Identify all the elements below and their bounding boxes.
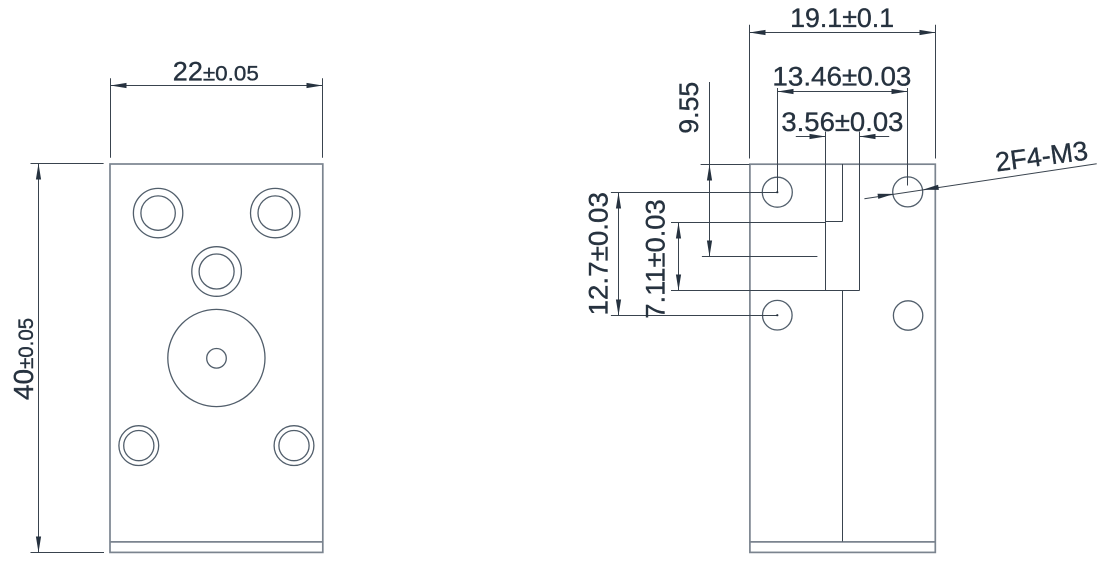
dim 13.46 line <box>778 91 908 93</box>
side view body outline <box>750 164 935 552</box>
hole top-right inner <box>258 196 292 230</box>
dim 9.55 top extension <box>701 164 750 166</box>
arrow 12.7 top <box>616 193 621 209</box>
hole bottom-left outer <box>119 426 159 466</box>
channel middle line <box>842 164 844 222</box>
dim 3.56 right extension <box>859 132 861 165</box>
dim 3.56 left extension <box>825 132 827 165</box>
center hole <box>207 349 227 369</box>
dim 22 right extension <box>322 78 324 157</box>
front view bottom step line <box>110 541 323 543</box>
hole center dot bottom-left <box>776 314 778 316</box>
hole bottom-right outer <box>274 426 314 466</box>
svg-text:3.56±0.03: 3.56±0.03 <box>781 107 903 137</box>
dim 13.46 right extension to hole center <box>907 88 909 186</box>
dim 19.1 left extension <box>749 25 751 159</box>
dim 22 line <box>111 85 323 87</box>
slot right edge <box>859 222 861 291</box>
dim 7.11 line <box>678 223 680 291</box>
arrow 7.11 top <box>676 223 681 239</box>
arrow 3.56 right <box>860 134 876 139</box>
arrow 22 left <box>111 83 127 88</box>
arrow 22 right <box>307 83 323 88</box>
svg-text:13.46±0.03: 13.46±0.03 <box>772 61 911 91</box>
arrow 40 bottom <box>36 537 41 553</box>
hole middle inner <box>199 254 234 289</box>
dim 7.11 bottom extension <box>671 290 826 292</box>
dim 12.7 line <box>618 193 620 316</box>
dim 40 line <box>38 164 40 553</box>
front view body outline <box>110 164 323 552</box>
leader arrow at hole right edge <box>923 185 939 190</box>
slot top edge <box>826 221 843 223</box>
arrow 40 top <box>36 164 41 180</box>
svg-text:9.55: 9.55 <box>674 82 704 134</box>
side hole bottom-right <box>893 301 922 330</box>
side hole bottom-left <box>763 300 793 330</box>
arrow 13.46 right <box>892 89 908 94</box>
slot bottom edge <box>826 290 860 292</box>
dim 19.1 right extension <box>935 25 937 159</box>
hole middle outer <box>192 247 242 297</box>
arrow 9.55 top <box>707 165 712 181</box>
slot left edge <box>825 222 827 291</box>
side hole top-left <box>762 177 792 207</box>
dim 3.56 left tail <box>796 136 826 138</box>
boss circle <box>168 309 265 406</box>
arrow 9.55 bottom <box>707 241 712 257</box>
dim 9.55 line <box>709 82 711 257</box>
arrow 19.1 left <box>750 30 766 35</box>
center seam line <box>842 291 844 542</box>
dim 13.46 left extension to hole center <box>777 88 779 192</box>
side view bottom step line <box>750 541 935 543</box>
dim 19.1 line <box>750 32 936 34</box>
hole top-right outer <box>251 188 300 237</box>
svg-text:19.1±0.1: 19.1±0.1 <box>790 3 894 33</box>
hole bottom-right inner <box>279 431 309 461</box>
arrow 3.56 left <box>810 134 826 139</box>
dim 22 left extension <box>110 78 112 157</box>
hole top-left inner <box>141 196 175 230</box>
dim 40 bottom extension <box>31 552 105 554</box>
svg-text:12.7±0.03: 12.7±0.03 <box>584 192 614 315</box>
dim 12.7 top extension to hole center <box>611 192 777 194</box>
arrow 19.1 right <box>920 30 936 35</box>
svg-text:7.11±0.03: 7.11±0.03 <box>641 199 671 319</box>
leader line 2F4-M3 <box>864 164 1096 199</box>
channel right line <box>859 164 861 222</box>
hole top-left outer <box>133 188 182 237</box>
leader arrow at hole left edge <box>878 194 894 199</box>
dim 12.7 bottom extension to hole center <box>611 315 777 317</box>
dim 9.55 bottom extension <box>702 256 818 258</box>
dim 3.56 right tail <box>860 136 890 138</box>
arrow 7.11 bottom <box>676 275 681 291</box>
dim 7.11 top extension <box>671 222 826 224</box>
hole bottom-left inner <box>124 431 154 461</box>
dim 40 top extension <box>31 163 104 165</box>
arrow 12.7 bottom <box>616 300 621 316</box>
arrow 13.46 left <box>778 89 794 94</box>
channel left line <box>825 164 827 222</box>
side hole top-right <box>893 177 923 207</box>
hole center dot top-left <box>776 191 778 193</box>
